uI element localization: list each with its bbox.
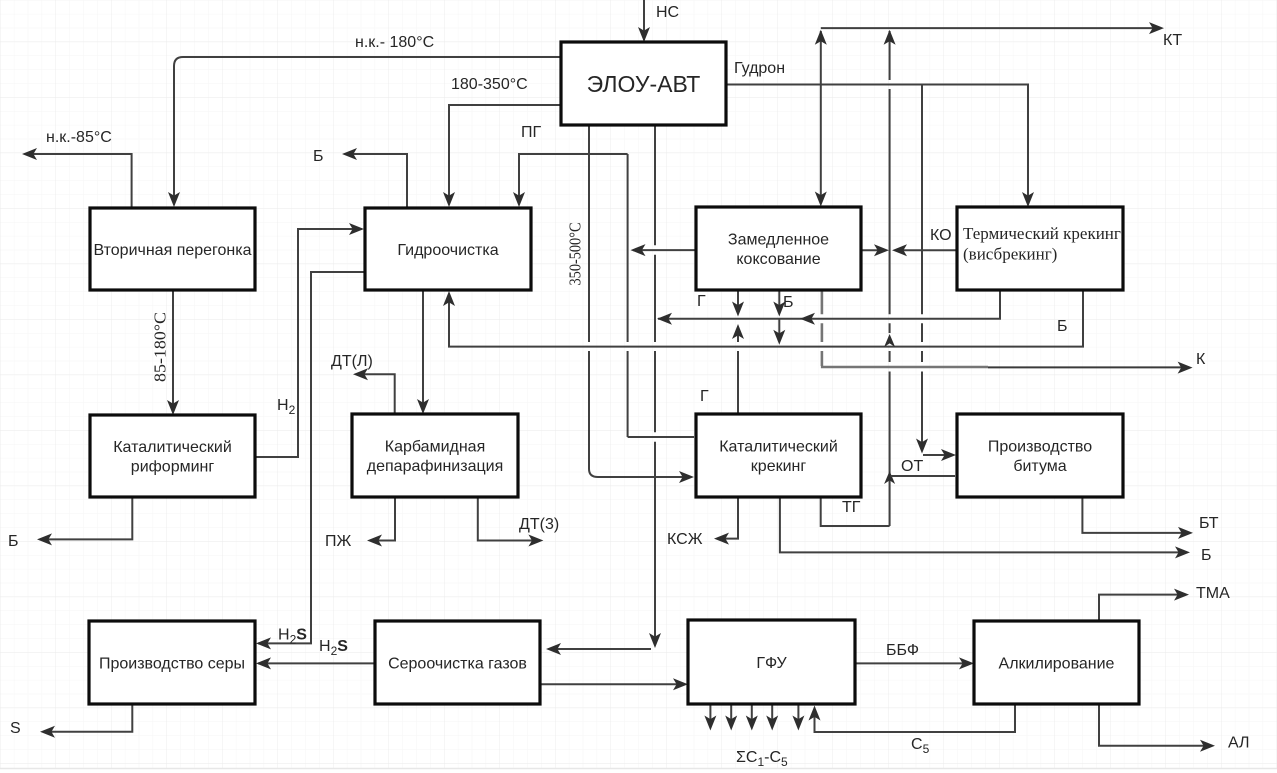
wire КСЖ output Каталитический крекинг [717,497,738,539]
svg-text:Б: Б [313,148,324,165]
svg-text:н.к.- 180°С: н.к.- 180°С [355,34,434,51]
wire ББФ from ГФУ to Алкилирование [855,662,971,664]
wire ТГ output Каталитический крекинг [821,497,890,526]
wire н.к.-180°С from ЭЛОУ-АВТ to Вторичная перегонка [174,57,561,204]
wire 85-180°С Вторичная перегонка to Каталитический риформинг [172,290,174,412]
wire С5 return from Алкилирование to ГФУ [815,704,1016,732]
svg-text:Гидроочистка: Гидроочистка [397,242,498,259]
wire H2S from Сероочистка газов to Производство серы [258,662,375,664]
svg-text:Гудрон: Гудрон [734,60,785,77]
block ГФУ [688,620,855,704]
svg-text:риформинг: риформинг [131,459,215,476]
wire ТМА output Алкилирование [1099,595,1186,621]
svg-text:БТ: БТ [1199,515,1219,532]
svg-text:коксование: коксование [736,251,820,268]
svg-text:Б: Б [1201,547,1212,564]
wire H2S from Гидроочистка to Производство серы [258,272,365,643]
block Производство битума [957,414,1123,497]
wire Б output of Гидроочистка [345,154,407,208]
svg-text:крекинг: крекинг [751,458,807,475]
svg-text:Алкилирование: Алкилирование [999,655,1115,672]
wire ДТ(Л) output of Карбамидная депарафинизация [356,374,395,414]
wire НС feed into ЭЛОУ-АВТ [643,0,645,40]
svg-text:НС: НС [656,4,679,21]
wire Б output of Каталитический риформинг [40,497,132,539]
svg-text:Карбамидная: Карбамидная [385,438,485,455]
wire ПГ branch into Гидроочистка [519,154,628,204]
wire S output Производство серы [43,704,132,732]
block Каталитический риформинг [90,415,255,497]
block Каталитический крекинг [696,414,861,497]
wire газ Замедленное коксование влево [633,249,696,251]
wire газовый коллектор y=318.8 [658,290,1000,319]
wire АЛ output Алкилирование [1099,704,1212,746]
svg-text:Производство: Производство [988,438,1092,455]
block ЭЛОУ-АВТ [561,42,726,125]
svg-text:КСЖ: КСЖ [667,531,703,548]
wire Б output Замедленное коксование (two hops with arrows) [778,290,780,342]
svg-text:КО: КО [930,227,952,244]
svg-text:ГФУ: ГФУ [756,655,787,672]
svg-text:S: S [10,720,21,737]
svg-text:Каталитический: Каталитический [113,439,232,456]
wire н.к.-85°С output of Вторичная перегонка [25,154,132,208]
svg-text:ОТ: ОТ [901,458,923,475]
block Производство серы [89,621,255,704]
block Вторичная перегонка [90,208,255,290]
wire feed to Производство битума from riser [891,475,955,477]
wires ГФУ bottom product arrows [709,704,711,727]
svg-text:Г: Г [697,293,706,310]
wire ДТ(3) output of Карбамидная депарафинизация [478,497,540,541]
wire H2 from Каталитический риформинг to Гидроочистка [255,229,362,457]
wire junction into Сероочистка газов right side [549,648,651,650]
svg-text:ДТ(Л): ДТ(Л) [331,353,373,370]
svg-text:Каталитический: Каталитический [719,438,838,455]
svg-text:ПГ: ПГ [521,124,542,141]
svg-text:ББФ: ББФ [886,642,919,659]
svg-text:ТМА: ТМА [1196,585,1230,602]
svg-text:Б: Б [1057,318,1068,335]
svg-text:ЭЛОУ-АВТ: ЭЛОУ-АВТ [587,71,701,97]
wire Б output Каталитический крекинг to right edge [780,497,1187,552]
wire К output Замедленное коксование (gray) [821,290,988,367]
wire КТ riser (double arrows) at Замедленное коксование [820,31,822,203]
svg-text:180-350°С: 180-350°С [451,76,528,93]
block Термический крекинг (висбрекинг) [957,207,1123,290]
svg-text:Производство серы: Производство серы [99,655,245,672]
svg-text:ДТ(3): ДТ(3) [519,516,559,533]
block Замедленное коксование [696,207,861,290]
wire 180-350°С from ЭЛОУ-АВТ to Гидроочистка [449,105,561,204]
svg-text:350-500°С: 350-500°С [566,223,585,286]
block Гидроочистка [365,208,531,290]
block Сероочистка газов [375,621,540,704]
wire газ ЭЛОУ-АВТ down to Сероочистка газов (hops) [654,125,656,644]
wire КТ output line [821,27,1161,29]
svg-text:Замедленное: Замедленное [728,231,829,248]
wire ОТ from Гудрон line down to Производство битума [921,85,923,450]
wire БТ output Производство битума [1082,497,1190,533]
wire ТГ-КТ riser x=889.6 with hops [889,31,891,526]
svg-text:(висбрекинг): (висбрекинг) [963,245,1057,264]
svg-text:Г: Г [700,388,709,405]
wire Гидроочистка to Карбамидная депарафинизация [422,290,424,411]
block Алкилирование [974,621,1139,704]
wire Сероочистка газов to ГФУ [540,683,685,685]
svg-text:депарафинизация: депарафинизация [367,458,503,475]
svg-text:К: К [1196,351,1206,368]
wire Б коллектор y=346.6 from Термический крекинг to Гидроочистка [449,290,1083,347]
svg-text:Вторичная перегонка: Вторичная перегонка [93,242,251,259]
svg-text:ПЖ: ПЖ [325,533,352,550]
wire Г output Замедленное коксование [737,290,739,314]
svg-text:Сероочистка газов: Сероочистка газов [388,655,527,672]
wire Гудрон from ЭЛОУ-АВТ to Термический крекинг [726,85,1028,205]
arrowhead mid collector [800,313,815,325]
svg-text:ТГ: ТГ [842,499,861,516]
wire КО from Термический крекинг [895,249,957,251]
svg-text:85-180°С: 85-180°С [151,312,170,382]
block Карбамидная депарафинизация [352,414,518,497]
wire ПЖ output of Карбамидная депарафинизация [370,497,395,541]
svg-text:Б: Б [8,533,19,550]
svg-text:н.к.-85°С: н.к.-85°С [46,129,112,146]
wire 350-500°С from ЭЛОУ-АВТ to Каталитический крекинг [589,125,691,477]
svg-text:Б: Б [783,294,794,311]
svg-text:КТ: КТ [1163,32,1182,49]
wire ПГ riser down to Каталитический крекинг (hop at Б line) [628,154,694,437]
wire КО from Замедленное коксование [861,249,885,251]
svg-text:АЛ: АЛ [1228,735,1250,752]
svg-text:битума: битума [1013,458,1066,475]
wire Г output Каталитический крекинг going up [737,327,739,414]
svg-text:Термический крекинг: Термический крекинг [963,224,1121,243]
